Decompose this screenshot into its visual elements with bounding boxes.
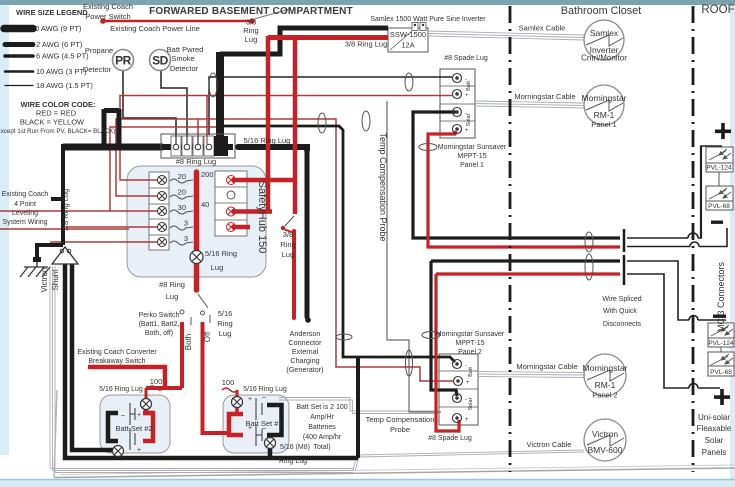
svg-text:Total): Total) [313, 444, 330, 451]
svg-text:40: 40 [201, 200, 209, 209]
svg-text:5/16 (M8): 5/16 (M8) [280, 444, 310, 451]
svg-text:Morningstar: Morningstar [583, 363, 628, 373]
svg-text:Samlex 1500 Watt Pure Sine Inv: Samlex 1500 Watt Pure Sine Inverter [370, 16, 486, 23]
svg-text:+: + [465, 417, 469, 423]
svg-text:Anderson: Anderson [290, 329, 321, 338]
svg-text:Victron: Victron [40, 268, 49, 293]
svg-text:200: 200 [201, 170, 214, 179]
svg-text:Panel 2: Panel 2 [592, 391, 617, 400]
svg-text:Power Switch: Power Switch [85, 12, 130, 21]
svg-text:Disconnects: Disconnects [603, 321, 642, 328]
svg-text:Batteries: Batteries [308, 424, 336, 431]
svg-text:20: 20 [178, 172, 186, 181]
svg-text:–: – [262, 394, 266, 401]
svg-text:Existing Coach Power Line: Existing Coach Power Line [110, 24, 200, 33]
svg-text:2 AWG (6 PT): 2 AWG (6 PT) [36, 40, 83, 49]
svg-text:5/16 Ring: 5/16 Ring [205, 249, 237, 258]
svg-text:Ring Lug: Ring Lug [279, 458, 307, 465]
svg-text:Existing Coach: Existing Coach [2, 191, 49, 198]
svg-text:RM-1: RM-1 [595, 380, 616, 390]
svg-text:3: 3 [184, 219, 188, 228]
svg-text:ROOF: ROOF [701, 4, 734, 16]
svg-text:Morningstar Sunsaver: Morningstar Sunsaver [438, 144, 507, 151]
svg-text:Morningstar: Morningstar [582, 93, 627, 103]
svg-text:(Generator): (Generator) [286, 365, 323, 374]
svg-text:Shunt: Shunt [51, 269, 60, 291]
svg-text:Leveling: Leveling [12, 210, 38, 217]
svg-text:Panel 1: Panel 1 [591, 120, 616, 129]
svg-text:Amp/Hr: Amp/Hr [310, 414, 334, 421]
svg-text:With Quick: With Quick [603, 308, 637, 315]
svg-text:100: 100 [222, 378, 235, 387]
svg-text:Breakaway Switch: Breakaway Switch [88, 358, 145, 365]
svg-text:Cntrl/Monitor: Cntrl/Monitor [581, 54, 627, 63]
svg-text:Detector: Detector [170, 64, 199, 73]
svg-text:Morningstar Sunsaver: Morningstar Sunsaver [436, 331, 505, 338]
svg-text:Lug: Lug [166, 292, 179, 301]
svg-text:SSW-1500: SSW-1500 [390, 30, 426, 39]
svg-text:Morningstar Cable: Morningstar Cable [516, 362, 577, 371]
svg-text:Both: Both [184, 334, 193, 350]
svg-text:Ring: Ring [280, 240, 295, 249]
svg-text:3/8 Ring Lug: 3/8 Ring Lug [345, 40, 388, 49]
svg-text:(Batt1, Batt2,: (Batt1, Batt2, [139, 321, 180, 328]
svg-text:PVL-124: PVL-124 [708, 340, 734, 347]
svg-text:Temp Compensation: Temp Compensation [366, 415, 435, 424]
svg-text:Propane: Propane [85, 46, 113, 55]
svg-text:External: External [292, 347, 319, 356]
svg-text:Smoke: Smoke [171, 54, 194, 63]
svg-text:Solar: Solar [468, 397, 474, 410]
svg-text:Connector: Connector [288, 338, 322, 347]
svg-text:Detector: Detector [83, 65, 112, 74]
svg-text:4 Point: 4 Point [14, 201, 36, 208]
svg-text:3/8: 3/8 [283, 230, 293, 239]
svg-text:+: + [466, 380, 470, 386]
svg-text:MPPT-15: MPPT-15 [455, 340, 484, 347]
svg-text:Batt Pwred: Batt Pwred [167, 45, 204, 54]
svg-text:Ring: Ring [217, 319, 232, 328]
svg-text:WIRE SIZE LEGEND: WIRE SIZE LEGEND [16, 8, 88, 17]
svg-text:5/16 Ring Lug: 5/16 Ring Lug [244, 136, 291, 145]
svg-text:Perko Switch: Perko Switch [139, 312, 180, 319]
svg-text:PVL-124: PVL-124 [706, 165, 732, 172]
svg-text:#8 Ring Lug: #8 Ring Lug [176, 157, 216, 166]
svg-text:5/16 Ring Lug: 5/16 Ring Lug [99, 386, 143, 393]
svg-text:SD: SD [152, 54, 169, 68]
svg-text:Victron: Victron [592, 429, 619, 439]
svg-text:Uni-solar: Uni-solar [698, 413, 730, 422]
svg-text:Bathroom Closet: Bathroom Closet [561, 5, 641, 17]
svg-text:Panels: Panels [702, 448, 726, 457]
svg-text:#8 Ring: #8 Ring [159, 280, 185, 289]
svg-text:+: + [137, 447, 141, 454]
svg-text:3/8 Ring Lug: 3/8 Ring Lug [61, 189, 70, 232]
svg-text:5/16 Ring Lug: 5/16 Ring Lug [243, 386, 287, 393]
svg-text:Temp Compensation Probe: Temp Compensation Probe [378, 132, 388, 241]
svg-text:Fleaxable: Fleaxable [697, 424, 732, 433]
svg-text:SafetyHub 150: SafetyHub 150 [256, 181, 268, 254]
svg-text:RED = RED: RED = RED [36, 109, 77, 118]
svg-text:PR: PR [115, 54, 132, 68]
svg-text:RM-1: RM-1 [594, 110, 615, 120]
svg-text:Batt Set is 2 100: Batt Set is 2 100 [296, 404, 347, 411]
svg-text:(400 Amp/hr: (400 Amp/hr [303, 434, 342, 441]
svg-text:System Wiring: System Wiring [2, 219, 47, 226]
svg-text:Panel 1: Panel 1 [460, 162, 484, 169]
svg-text:6 AWG (4.5 PT): 6 AWG (4.5 PT) [36, 52, 89, 61]
svg-text:Off: Off [203, 331, 212, 342]
svg-text:PVL-68: PVL-68 [710, 369, 732, 376]
svg-text:Wire Spliced: Wire Spliced [602, 296, 641, 303]
svg-text:18 AWG (1.5 PT): 18 AWG (1.5 PT) [36, 81, 93, 90]
svg-text:Probe: Probe [390, 425, 410, 434]
svg-text:Batt: Batt [468, 367, 474, 377]
svg-text:0 AWG (9 PT): 0 AWG (9 PT) [35, 24, 82, 33]
svg-text:#8 Spade Lug: #8 Spade Lug [444, 55, 488, 62]
svg-text:Samlex: Samlex [590, 28, 619, 38]
svg-text:Morningstar Cable: Morningstar Cable [514, 92, 575, 101]
svg-text:BLACK = YELLOW: BLACK = YELLOW [20, 118, 85, 127]
svg-text:5/16: 5/16 [218, 309, 233, 318]
svg-text:Existing Coach: Existing Coach [83, 2, 133, 11]
svg-text:Existing Coach Converter: Existing Coach Converter [77, 349, 157, 356]
svg-text:+: + [248, 425, 252, 432]
svg-text:-: - [465, 397, 467, 403]
svg-text:+: + [465, 93, 469, 99]
svg-text:Ring: Ring [243, 26, 258, 35]
svg-text:12A: 12A [401, 41, 414, 50]
svg-text:-: - [465, 111, 467, 117]
svg-text:Charging: Charging [290, 356, 319, 365]
svg-text:30: 30 [178, 203, 186, 212]
svg-text:-: - [465, 363, 467, 369]
svg-text:Lug: Lug [211, 263, 224, 272]
svg-text:BMV-600: BMV-600 [588, 445, 623, 455]
svg-text:20: 20 [178, 188, 186, 197]
svg-text:Both, off): Both, off) [145, 330, 173, 337]
svg-text:-: - [465, 77, 467, 83]
svg-text:(Except 1st Run From PV, BLACK: (Except 1st Run From PV, BLACK= BLACK) [0, 128, 116, 135]
svg-text:–: – [262, 425, 266, 432]
svg-text:Panel 2: Panel 2 [458, 349, 482, 356]
svg-text:–: – [121, 412, 125, 419]
svg-text:3: 3 [184, 234, 188, 243]
svg-text:Solar: Solar [705, 436, 724, 445]
svg-text:PVL-68: PVL-68 [708, 203, 730, 210]
svg-text:10 AWG (3 PT): 10 AWG (3 PT) [36, 67, 87, 76]
svg-text:Lug: Lug [245, 35, 258, 44]
svg-text:+: + [137, 412, 141, 419]
svg-text:MC 3 Connectors: MC 3 Connectors [716, 261, 726, 332]
svg-text:Lug: Lug [219, 329, 232, 338]
svg-text:#8 Spade Lug: #8 Spade Lug [428, 435, 472, 442]
svg-text:Batt Set #2: Batt Set #2 [115, 424, 152, 433]
svg-text:Victron Cable: Victron Cable [527, 440, 572, 449]
svg-text:MPPT-15: MPPT-15 [457, 153, 486, 160]
svg-text:FORWARED BASEMENT COMPARTMENT: FORWARED BASEMENT COMPARTMENT [149, 6, 353, 17]
svg-text:+: + [248, 396, 252, 403]
svg-text:+: + [465, 128, 469, 134]
svg-text:100: 100 [150, 377, 163, 386]
svg-text:Lug: Lug [282, 250, 295, 259]
svg-text:Samlex Cable: Samlex Cable [519, 24, 566, 33]
